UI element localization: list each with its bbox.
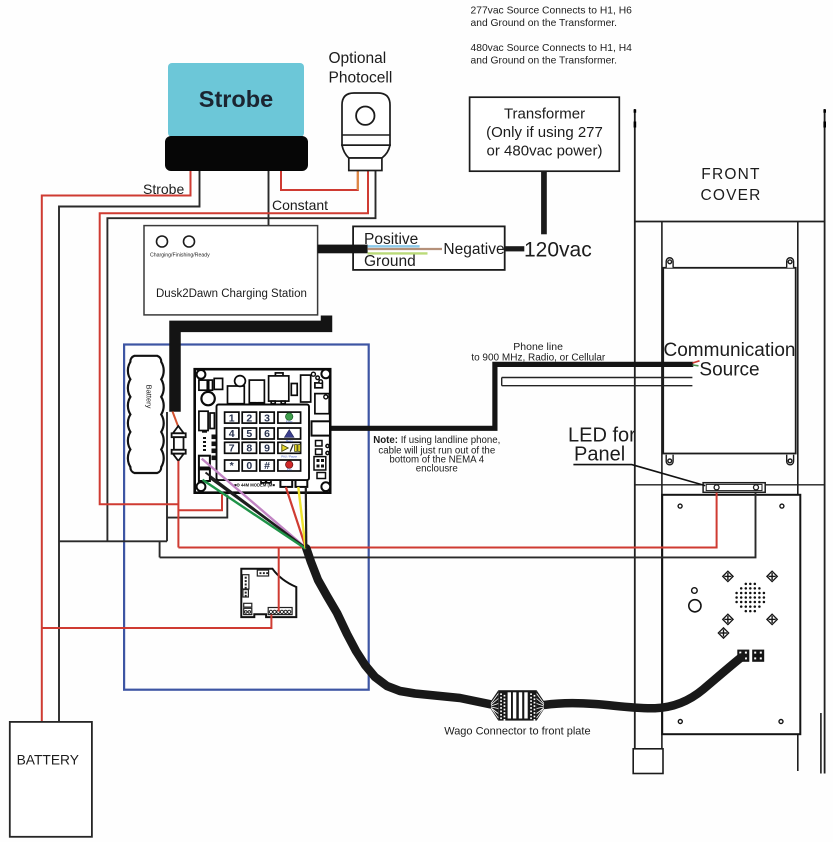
svg-text:Phone line: Phone line <box>513 341 563 353</box>
svg-text:Communication: Communication <box>664 340 796 361</box>
svg-text:#: # <box>264 460 270 472</box>
svg-text:Dusk2Dawn Charging Station: Dusk2Dawn Charging Station <box>156 288 307 300</box>
svg-text:1: 1 <box>229 412 235 424</box>
svg-text:Exit: Exit <box>287 467 292 471</box>
svg-text:6: 6 <box>264 428 270 440</box>
svg-text:PAU / Pause: PAU / Pause <box>281 455 297 459</box>
svg-text:Charging/Finishing/Ready: Charging/Finishing/Ready <box>150 253 210 259</box>
svg-text:Photocell: Photocell <box>329 70 393 87</box>
svg-text:480vac Source Connects to H1,: 480vac Source Connects to H1, H4 <box>471 43 633 54</box>
svg-text:Enter: Enter <box>286 419 293 423</box>
svg-text:■ʘ 44M MODEM (M■: ■ʘ 44M MODEM (M■ <box>234 483 275 488</box>
svg-text:5: 5 <box>246 428 252 440</box>
svg-text:120vac: 120vac <box>524 239 592 262</box>
svg-text:7: 7 <box>229 443 235 455</box>
svg-text:277vac Source Connects to H1,: 277vac Source Connects to H1, H6 <box>471 6 633 17</box>
svg-text:BATTERY: BATTERY <box>17 753 79 768</box>
svg-text:Negative: Negative <box>443 241 504 258</box>
svg-text:(Only if using 277: (Only if using 277 <box>486 124 603 141</box>
svg-text:2: 2 <box>246 412 252 424</box>
svg-text:Strobe: Strobe <box>199 86 273 112</box>
svg-text:Constant: Constant <box>272 197 328 213</box>
svg-text:enclousre: enclousre <box>416 464 458 475</box>
svg-text:Optional: Optional <box>329 50 387 67</box>
svg-text:Panel: Panel <box>574 444 625 466</box>
svg-text:COVER: COVER <box>700 187 761 204</box>
svg-text:0: 0 <box>246 460 252 472</box>
svg-text:Menu: Menu <box>286 439 293 443</box>
svg-text:Ground: Ground <box>364 253 416 270</box>
svg-text:Source: Source <box>699 360 759 381</box>
svg-text:FRONT: FRONT <box>701 166 760 183</box>
svg-text:4: 4 <box>229 428 235 440</box>
svg-text:3: 3 <box>264 412 270 424</box>
svg-text:Transformer: Transformer <box>504 106 585 123</box>
svg-text:and Ground on the Transformer.: and Ground on the Transformer. <box>471 56 618 67</box>
svg-text:Positive: Positive <box>364 231 418 248</box>
svg-text:or 480vac power): or 480vac power) <box>487 143 603 160</box>
svg-text:9: 9 <box>264 443 270 455</box>
svg-text:and Ground on the Transformer.: and Ground on the Transformer. <box>471 18 618 29</box>
svg-text:Strobe: Strobe <box>143 181 184 197</box>
svg-text:Wago Connector to front plate: Wago Connector to front plate <box>444 726 590 738</box>
svg-text:to 900 MHz, Radio, or Cellular: to 900 MHz, Radio, or Cellular <box>471 353 606 364</box>
svg-text:Battery: Battery <box>145 385 154 409</box>
svg-text:8: 8 <box>246 443 252 455</box>
